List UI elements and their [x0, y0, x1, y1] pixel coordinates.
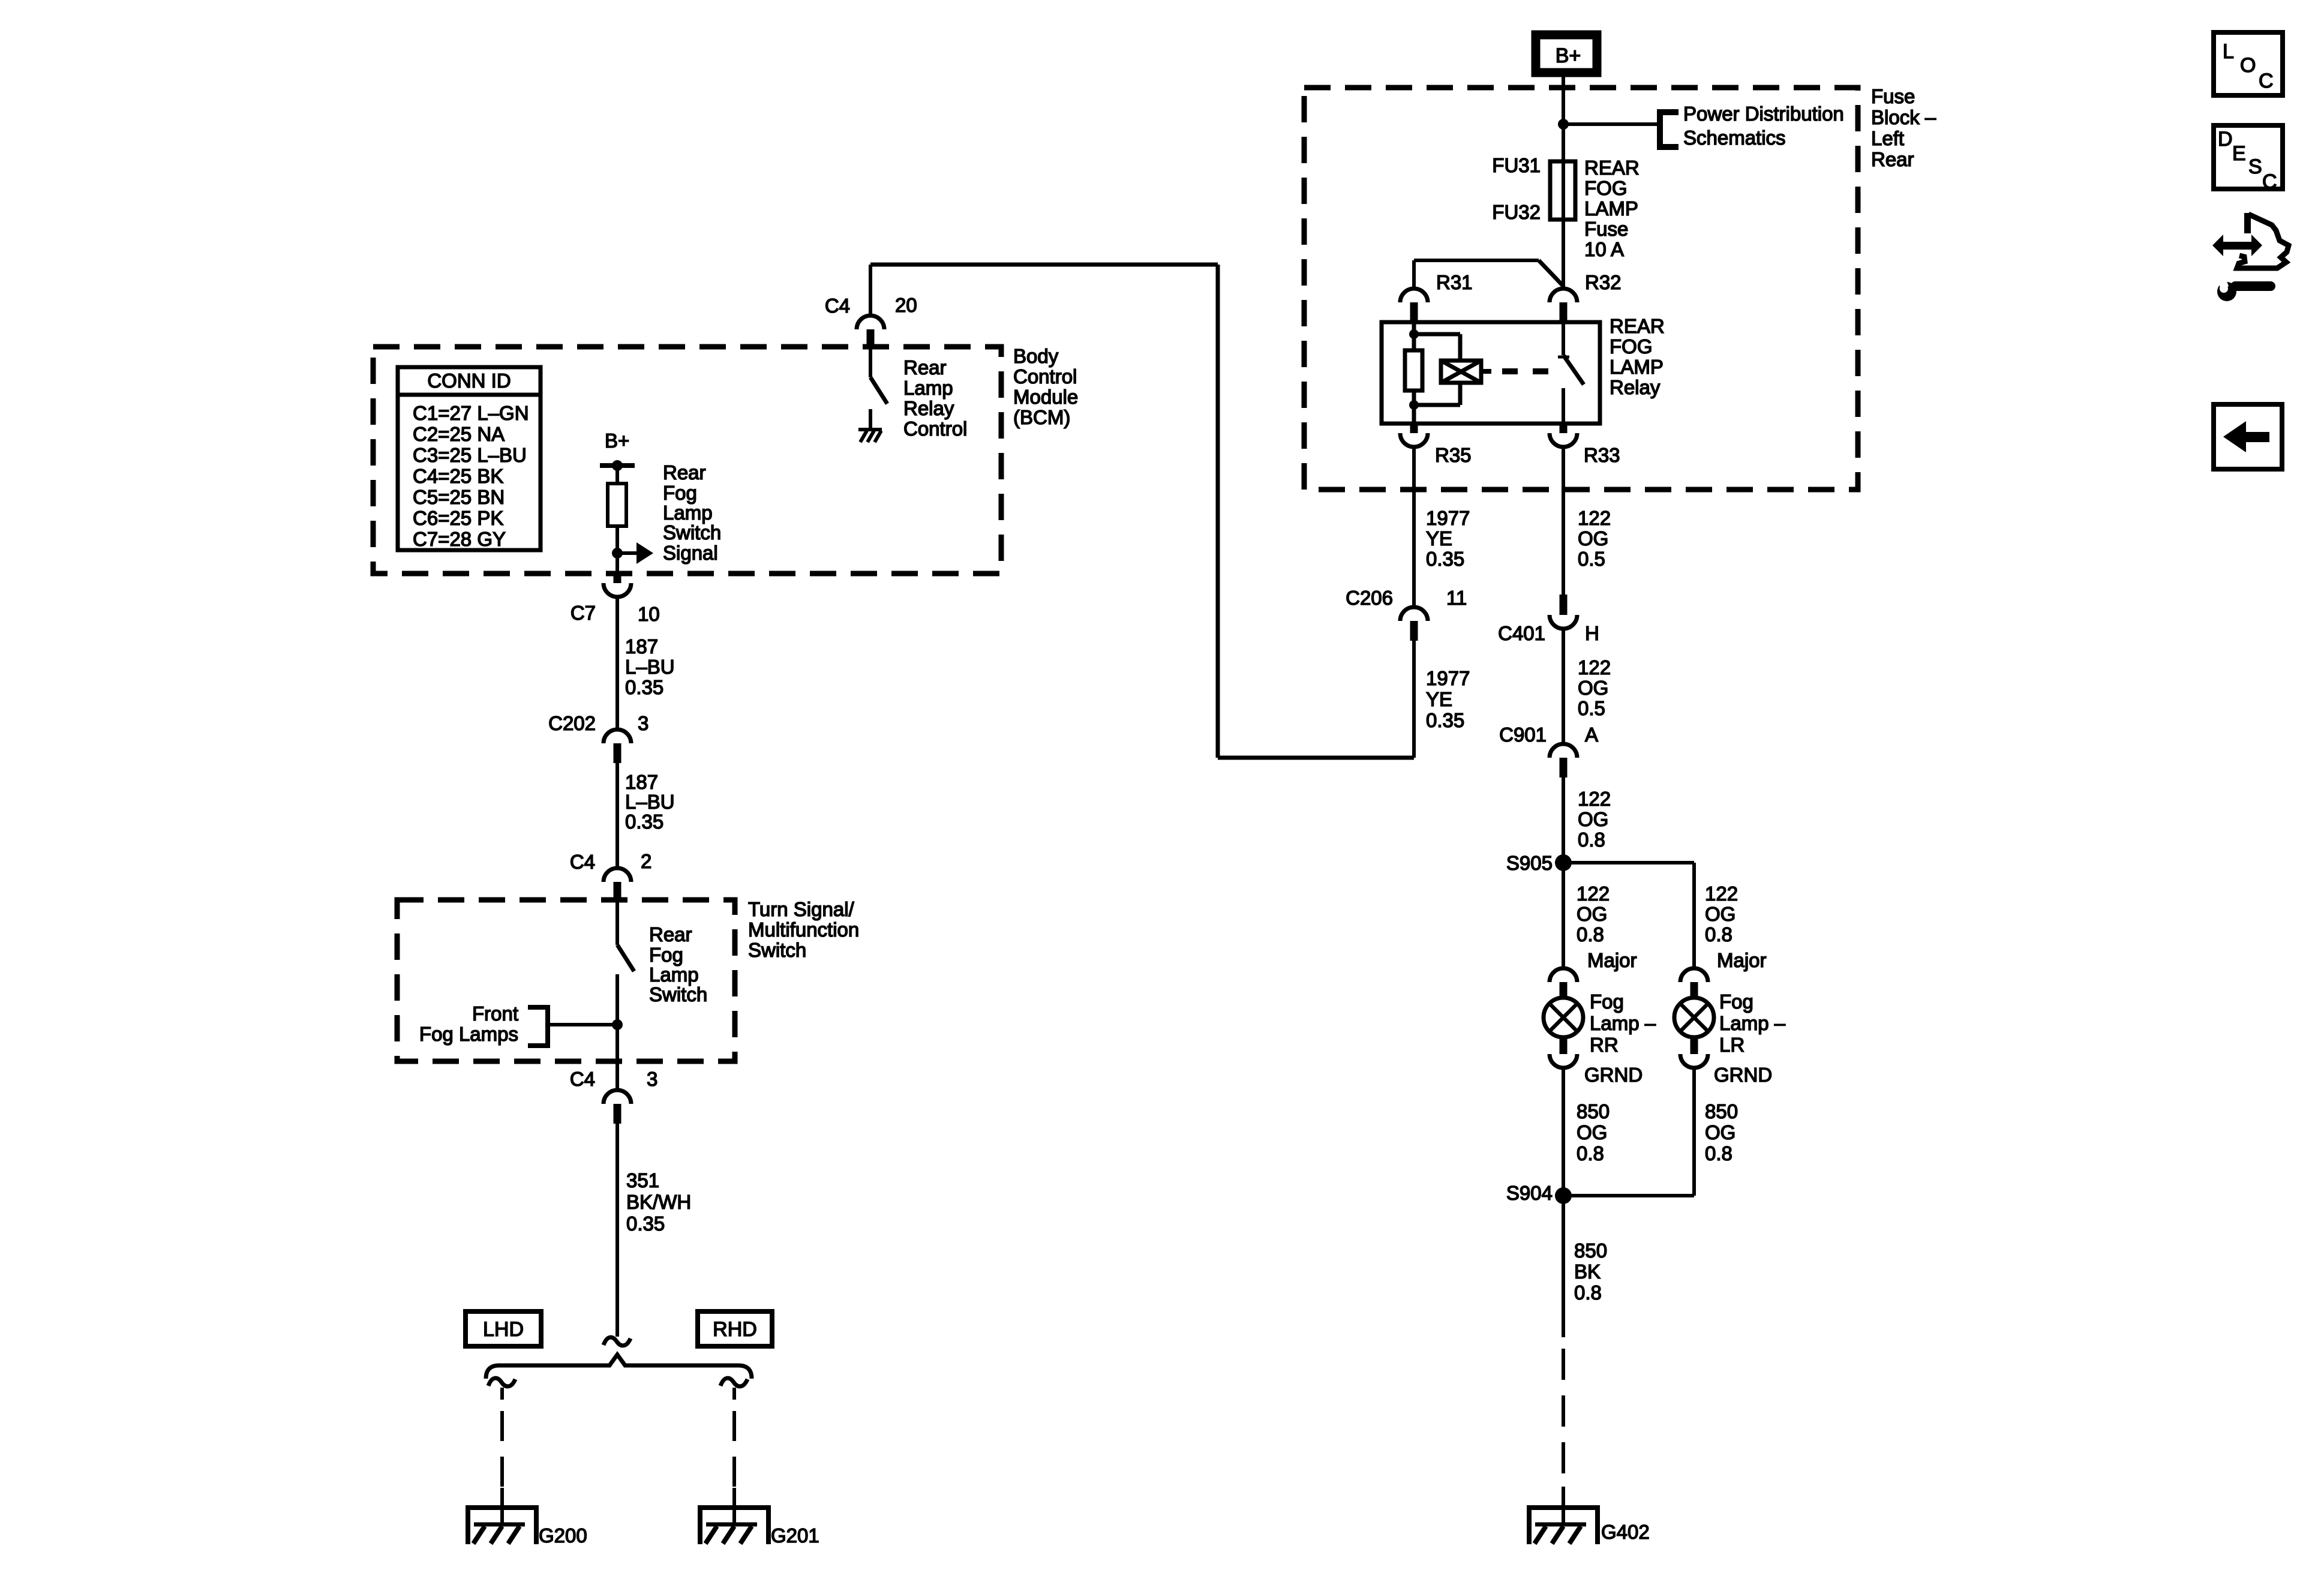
svg-text:Rear: Rear — [663, 461, 706, 484]
svg-text:20: 20 — [895, 294, 917, 316]
svg-text:2: 2 — [641, 850, 651, 872]
svg-text:0.5: 0.5 — [1578, 697, 1605, 719]
svg-text:Fog: Fog — [663, 482, 697, 504]
svg-text:B+: B+ — [605, 430, 629, 452]
svg-text:BK/WH: BK/WH — [626, 1191, 691, 1213]
svg-text:GRND: GRND — [1714, 1064, 1772, 1086]
svg-text:FOG: FOG — [1584, 177, 1628, 199]
svg-text:G201: G201 — [771, 1524, 819, 1547]
svg-text:0.8: 0.8 — [1577, 1142, 1604, 1164]
svg-text:Multifunction: Multifunction — [748, 918, 859, 941]
svg-text:10: 10 — [638, 603, 660, 625]
svg-text:C401: C401 — [1498, 622, 1545, 644]
svg-text:187: 187 — [625, 635, 658, 658]
svg-text:Fuse: Fuse — [1584, 218, 1628, 240]
svg-text:C: C — [2259, 70, 2274, 92]
svg-text:Control: Control — [1013, 365, 1077, 388]
svg-text:E: E — [2232, 142, 2246, 165]
svg-text:3: 3 — [638, 712, 648, 734]
svg-text:C3=25 L–BU: C3=25 L–BU — [413, 444, 527, 466]
svg-text:D: D — [2218, 128, 2233, 151]
svg-text:Power Distribution: Power Distribution — [1683, 103, 1844, 125]
svg-text:CONN ID: CONN ID — [427, 370, 511, 392]
svg-text:C901: C901 — [1499, 724, 1547, 746]
svg-text:OG: OG — [1578, 527, 1608, 550]
svg-text:OG: OG — [1577, 1121, 1607, 1143]
svg-text:GRND: GRND — [1584, 1064, 1643, 1086]
svg-text:Rear: Rear — [649, 923, 692, 945]
svg-text:YE: YE — [1426, 688, 1452, 710]
svg-text:Major: Major — [1717, 949, 1767, 971]
svg-text:0.8: 0.8 — [1705, 1142, 1733, 1164]
svg-text:C: C — [2262, 170, 2277, 193]
svg-text:O: O — [2240, 54, 2256, 77]
svg-text:FU32: FU32 — [1492, 201, 1541, 223]
svg-text:C4: C4 — [570, 1068, 595, 1090]
svg-text:Lamp –: Lamp – — [1719, 1012, 1786, 1034]
svg-text:351: 351 — [626, 1169, 659, 1191]
svg-text:A: A — [1585, 724, 1598, 746]
svg-text:1977: 1977 — [1426, 507, 1470, 529]
svg-text:C6=25 PK: C6=25 PK — [413, 507, 503, 529]
svg-text:0.8: 0.8 — [1577, 923, 1604, 945]
svg-text:RR: RR — [1590, 1034, 1619, 1056]
svg-text:G200: G200 — [539, 1524, 587, 1547]
svg-text:OG: OG — [1578, 808, 1608, 830]
svg-text:C4: C4 — [570, 851, 595, 873]
svg-text:C202: C202 — [548, 712, 596, 734]
svg-text:Left: Left — [1871, 127, 1904, 149]
svg-text:C4: C4 — [825, 295, 850, 317]
svg-text:C4=25 BK: C4=25 BK — [413, 465, 503, 487]
svg-text:Lamp: Lamp — [649, 963, 699, 986]
svg-text:RHD: RHD — [713, 1318, 757, 1341]
svg-text:Control: Control — [903, 418, 967, 440]
svg-text:850: 850 — [1574, 1239, 1607, 1262]
svg-text:LR: LR — [1719, 1034, 1744, 1056]
svg-text:Turn Signal/: Turn Signal/ — [748, 898, 855, 920]
svg-text:122: 122 — [1705, 882, 1738, 905]
svg-text:C1=27 L–GN: C1=27 L–GN — [413, 402, 529, 424]
svg-text:Rear: Rear — [1871, 148, 1914, 170]
svg-text:Fog Lamps: Fog Lamps — [419, 1023, 518, 1045]
svg-text:850: 850 — [1577, 1100, 1610, 1122]
svg-text:0.8: 0.8 — [1578, 828, 1605, 851]
svg-text:187: 187 — [625, 771, 658, 793]
svg-text:0.35: 0.35 — [1426, 709, 1464, 731]
svg-text:Lamp: Lamp — [903, 377, 953, 399]
svg-text:REAR: REAR — [1584, 157, 1640, 179]
svg-text:0.35: 0.35 — [1426, 548, 1464, 570]
svg-text:LAMP: LAMP — [1584, 197, 1638, 220]
svg-text:Relay: Relay — [1610, 376, 1661, 398]
svg-text:YE: YE — [1426, 527, 1452, 550]
svg-text:R33: R33 — [1584, 444, 1620, 466]
svg-text:0.35: 0.35 — [626, 1212, 665, 1235]
svg-text:Switch: Switch — [663, 521, 721, 544]
svg-text:Major: Major — [1587, 949, 1637, 971]
svg-text:0.35: 0.35 — [625, 810, 663, 833]
svg-text:0.8: 0.8 — [1574, 1281, 1602, 1304]
svg-text:850: 850 — [1705, 1100, 1738, 1122]
svg-text:Lamp: Lamp — [663, 502, 713, 524]
svg-text:Fog: Fog — [649, 944, 683, 966]
svg-text:OG: OG — [1578, 677, 1608, 699]
svg-text:OG: OG — [1577, 903, 1607, 925]
svg-text:FOG: FOG — [1610, 335, 1653, 358]
svg-text:B+: B+ — [1556, 44, 1581, 67]
svg-text:122: 122 — [1577, 882, 1610, 905]
svg-text:C7=28 GY: C7=28 GY — [413, 528, 506, 550]
svg-text:10 A: 10 A — [1584, 238, 1624, 260]
svg-text:L–BU: L–BU — [625, 656, 675, 678]
svg-text:S: S — [2248, 155, 2262, 178]
svg-text:L: L — [2223, 40, 2234, 63]
svg-text:Fog: Fog — [1590, 990, 1624, 1013]
svg-text:Block –: Block – — [1871, 106, 1936, 128]
svg-text:Fuse: Fuse — [1871, 85, 1915, 107]
svg-text:Body: Body — [1013, 345, 1059, 367]
svg-text:Lamp –: Lamp – — [1590, 1012, 1656, 1034]
svg-text:0.35: 0.35 — [625, 676, 663, 698]
svg-text:L–BU: L–BU — [625, 791, 675, 813]
svg-text:R32: R32 — [1585, 271, 1622, 293]
svg-text:OG: OG — [1705, 903, 1736, 925]
svg-text:0.5: 0.5 — [1578, 548, 1605, 570]
svg-text:S904: S904 — [1506, 1182, 1553, 1204]
svg-text:REAR: REAR — [1610, 315, 1665, 337]
svg-text:FU31: FU31 — [1492, 154, 1541, 176]
svg-text:Rear: Rear — [903, 356, 947, 379]
svg-text:H: H — [1585, 622, 1599, 644]
svg-text:S905: S905 — [1506, 852, 1553, 874]
svg-text:Module: Module — [1013, 386, 1078, 408]
svg-text:C7: C7 — [571, 602, 596, 624]
svg-text:C2=25 NA: C2=25 NA — [413, 423, 505, 445]
svg-text:C5=25 BN: C5=25 BN — [413, 486, 505, 508]
svg-text:Signal: Signal — [663, 542, 718, 564]
svg-text:LAMP: LAMP — [1610, 356, 1664, 378]
svg-text:(BCM): (BCM) — [1013, 406, 1070, 428]
svg-text:G402: G402 — [1601, 1521, 1650, 1543]
svg-text:Relay: Relay — [903, 397, 954, 419]
svg-text:Front: Front — [472, 1002, 518, 1025]
svg-text:OG: OG — [1705, 1121, 1736, 1143]
svg-text:R31: R31 — [1436, 271, 1473, 293]
svg-text:0.8: 0.8 — [1705, 923, 1733, 945]
svg-text:Switch: Switch — [649, 983, 707, 1005]
svg-text:C206: C206 — [1346, 587, 1393, 609]
svg-text:11: 11 — [1446, 587, 1467, 609]
svg-text:R35: R35 — [1435, 444, 1472, 466]
svg-text:122: 122 — [1578, 507, 1611, 529]
svg-text:122: 122 — [1578, 788, 1611, 810]
svg-text:BK: BK — [1574, 1260, 1601, 1283]
svg-text:Fog: Fog — [1719, 990, 1753, 1013]
svg-text:1977: 1977 — [1426, 667, 1470, 689]
svg-text:3: 3 — [647, 1068, 657, 1090]
svg-text:LHD: LHD — [483, 1318, 524, 1341]
svg-text:Switch: Switch — [748, 939, 806, 961]
svg-text:Schematics: Schematics — [1683, 127, 1786, 149]
svg-text:122: 122 — [1578, 656, 1611, 679]
